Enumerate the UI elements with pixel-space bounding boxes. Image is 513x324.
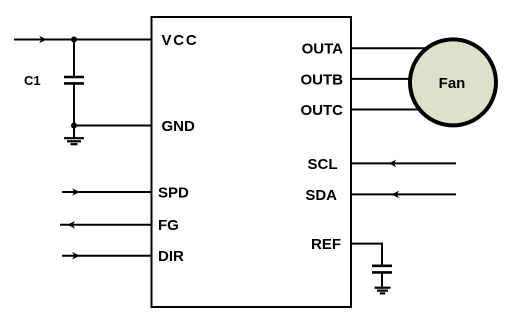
wire SCL input [351, 162, 456, 164]
svg-text:SDA: SDA [305, 187, 337, 204]
wire DIR input [62, 255, 152, 257]
arrowhead SDA (pointing left) [392, 191, 400, 199]
svg-text:GND: GND [162, 118, 196, 135]
wire OUTB [351, 78, 453, 80]
fan motor M1 [410, 39, 496, 125]
svg-text:OUTC: OUTC [301, 102, 344, 119]
capacitor C1 [64, 40, 84, 126]
svg-text:REF: REF [311, 236, 341, 253]
node junction GND/C1 [71, 123, 77, 129]
node junction VCC/C1 [71, 37, 77, 43]
svg-text:OUTA: OUTA [302, 41, 344, 58]
wire REF [351, 244, 382, 266]
arrowhead SPD (pointing right) [72, 188, 80, 196]
svg-text:VCC: VCC [162, 32, 199, 49]
IC U1 body [152, 17, 352, 307]
capacitor C2 (REF) [372, 266, 392, 288]
wire SPD input [62, 191, 152, 193]
wire OUTC [351, 109, 453, 111]
ground symbol (REF) [375, 288, 391, 294]
arrowhead VCC (pointing right) [39, 36, 47, 44]
wire OUTA [351, 47, 453, 49]
svg-text:FG: FG [158, 217, 179, 234]
wire FG output [60, 224, 152, 226]
svg-text:SCL: SCL [308, 156, 338, 173]
arrowhead DIR (pointing right) [72, 252, 80, 260]
arrowhead SCL (pointing left) [389, 160, 397, 168]
wire GND [74, 125, 152, 127]
svg-text:SPD: SPD [158, 184, 189, 201]
svg-text:DIR: DIR [158, 248, 184, 265]
svg-text:C1: C1 [24, 73, 41, 88]
wire VCC input [14, 39, 152, 41]
ground symbol (C1) [64, 126, 84, 145]
svg-text:OUTB: OUTB [301, 71, 344, 88]
wire SDA input [351, 193, 456, 195]
svg-text:Fan: Fan [439, 75, 466, 92]
arrowhead FG (pointing left) [67, 221, 75, 229]
